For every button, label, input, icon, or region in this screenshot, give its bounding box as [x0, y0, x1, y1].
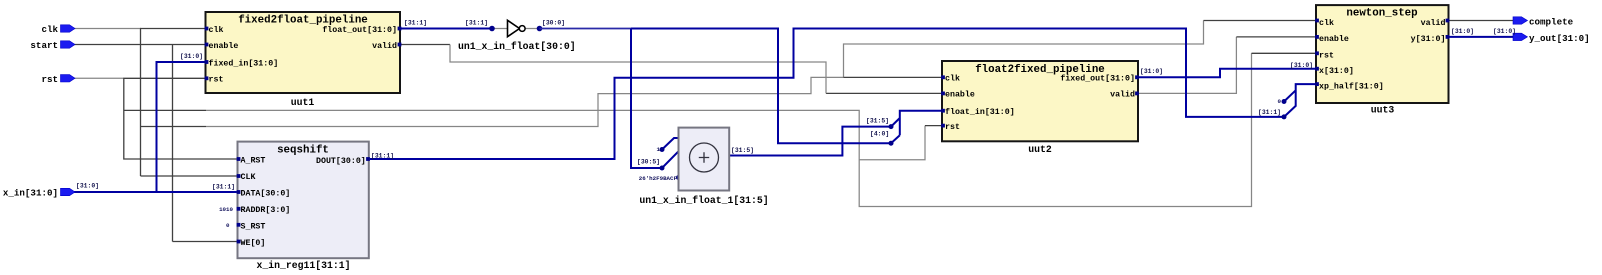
svg-text:RADDR[3:0]: RADDR[3:0] — [241, 205, 291, 215]
wire rst net — [74, 53, 1316, 206]
bus un1_x_in_float net — [540, 29, 900, 171]
input port start — [30, 40, 75, 51]
constant 1 into adder — [657, 138, 679, 153]
svg-text:rst: rst — [1319, 52, 1334, 61]
svg-text:enable: enable — [209, 41, 239, 51]
svg-text:valid: valid — [1421, 18, 1446, 28]
svg-text:rst: rst — [945, 123, 960, 132]
input port x_in — [3, 188, 75, 199]
bus DOUT net to xp_half — [369, 29, 1316, 160]
svg-text:float_in[31:0]: float_in[31:0] — [945, 107, 1015, 117]
svg-text:clk: clk — [41, 24, 58, 35]
svg-text:CLK: CLK — [241, 173, 256, 182]
output port y_out — [1513, 33, 1590, 44]
svg-text:26'h2F9BACF: 26'h2F9BACF — [639, 175, 678, 182]
svg-text:[31:1]: [31:1] — [1258, 109, 1281, 116]
svg-text:WE[0]: WE[0] — [241, 238, 266, 248]
svg-text:[31:0]: [31:0] — [180, 53, 203, 60]
svg-text:[31:0]: [31:0] — [1290, 62, 1313, 69]
inverter un1_x_in_float gate — [489, 20, 542, 36]
wire clk net — [74, 21, 1316, 177]
svg-text:clk: clk — [209, 25, 224, 35]
wire start net — [74, 45, 237, 242]
svg-text:1: 1 — [657, 146, 661, 153]
svg-text:seqshift: seqshift — [277, 145, 329, 157]
svg-text:[31:1]: [31:1] — [404, 20, 427, 27]
svg-text:[31:1]: [31:1] — [465, 20, 488, 27]
svg-text:x[31:0]: x[31:0] — [1319, 66, 1354, 76]
svg-text:[31:5]: [31:5] — [731, 147, 754, 154]
svg-text:[31:0]: [31:0] — [1451, 28, 1474, 35]
bus y to y_out — [1449, 36, 1514, 38]
output port complete — [1513, 17, 1574, 28]
svg-text:[30:0]: [30:0] — [542, 20, 565, 27]
svg-text:start: start — [30, 40, 58, 51]
svg-text:[4:0]: [4:0] — [870, 131, 889, 138]
svg-text:[31:0]: [31:0] — [1493, 28, 1516, 35]
svg-text:x_in_reg11[31:1]: x_in_reg11[31:1] — [256, 260, 350, 271]
svg-text:0: 0 — [226, 222, 230, 229]
svg-text:rst: rst — [209, 76, 224, 85]
svg-text:float_out[31:0]: float_out[31:0] — [322, 25, 397, 35]
svg-text:un1_x_in_float_1[31:5]: un1_x_in_float_1[31:5] — [639, 195, 768, 206]
svg-text:1010: 1010 — [219, 206, 233, 213]
input port clk — [41, 24, 75, 35]
adder un1_x_in_float_1 — [679, 128, 730, 191]
svg-text:y[31:0]: y[31:0] — [1411, 34, 1446, 44]
svg-text:valid: valid — [372, 41, 397, 51]
svg-text:enable: enable — [1319, 34, 1349, 44]
svg-text:uut3: uut3 — [1371, 105, 1395, 116]
svg-text:0: 0 — [1278, 98, 1282, 105]
wire uut2 valid to uut3 enable — [1138, 37, 1236, 94]
svg-text:DATA[30:0]: DATA[30:0] — [241, 189, 291, 199]
svg-text:valid: valid — [1110, 90, 1135, 100]
constant 26'h2F9BACF into adder — [639, 175, 681, 182]
bus float_out from uut1 — [400, 28, 492, 30]
module uut3 newton_step — [1315, 5, 1449, 103]
svg-text:newton_step: newton_step — [1346, 8, 1417, 20]
module uut2 float2fixed_pipeline — [941, 61, 1139, 141]
wire uut1 valid to uut2 enable — [400, 45, 941, 94]
svg-text:[31:1]: [31:1] — [371, 153, 394, 160]
input port rst — [41, 74, 75, 85]
svg-text:enable: enable — [945, 90, 975, 100]
svg-text:[30:5]: [30:5] — [637, 158, 660, 165]
svg-text:A_RST: A_RST — [241, 156, 266, 165]
wire uut3 valid to complete — [1449, 20, 1514, 22]
svg-text:fixed2float_pipeline: fixed2float_pipeline — [238, 15, 368, 27]
svg-text:DOUT[30:0]: DOUT[30:0] — [316, 156, 366, 166]
module uut1 fixed2float_pipeline — [205, 12, 402, 93]
svg-text:xp_half[31:0]: xp_half[31:0] — [1319, 81, 1384, 91]
bus x_in to DATA and fixed_in — [74, 62, 238, 192]
svg-text:clk: clk — [1319, 18, 1334, 28]
svg-text:clk: clk — [945, 74, 960, 84]
svg-text:S_RST: S_RST — [241, 223, 266, 232]
svg-text:y_out[31:0]: y_out[31:0] — [1529, 33, 1590, 44]
svg-text:uut2: uut2 — [1028, 144, 1052, 155]
svg-text:complete: complete — [1529, 17, 1574, 28]
bus fixed_out to x — [1138, 69, 1316, 78]
svg-text:[31:0]: [31:0] — [76, 183, 99, 190]
svg-text:uut1: uut1 — [291, 97, 315, 108]
svg-text:un1_x_in_float[30:0]: un1_x_in_float[30:0] — [458, 41, 576, 52]
svg-text:[31:5]: [31:5] — [866, 118, 889, 125]
svg-text:[31:1]: [31:1] — [212, 184, 235, 191]
module x_in_reg11 seqshift — [237, 142, 370, 259]
svg-text:fixed_in[31:0]: fixed_in[31:0] — [209, 58, 279, 68]
svg-text:x_in[31:0]: x_in[31:0] — [3, 188, 58, 199]
svg-text:fixed_out[31:0]: fixed_out[31:0] — [1060, 74, 1135, 84]
svg-text:[31:0]: [31:0] — [1140, 68, 1163, 75]
bus adder output to float_in concat — [729, 111, 942, 156]
svg-text:rst: rst — [41, 74, 58, 85]
